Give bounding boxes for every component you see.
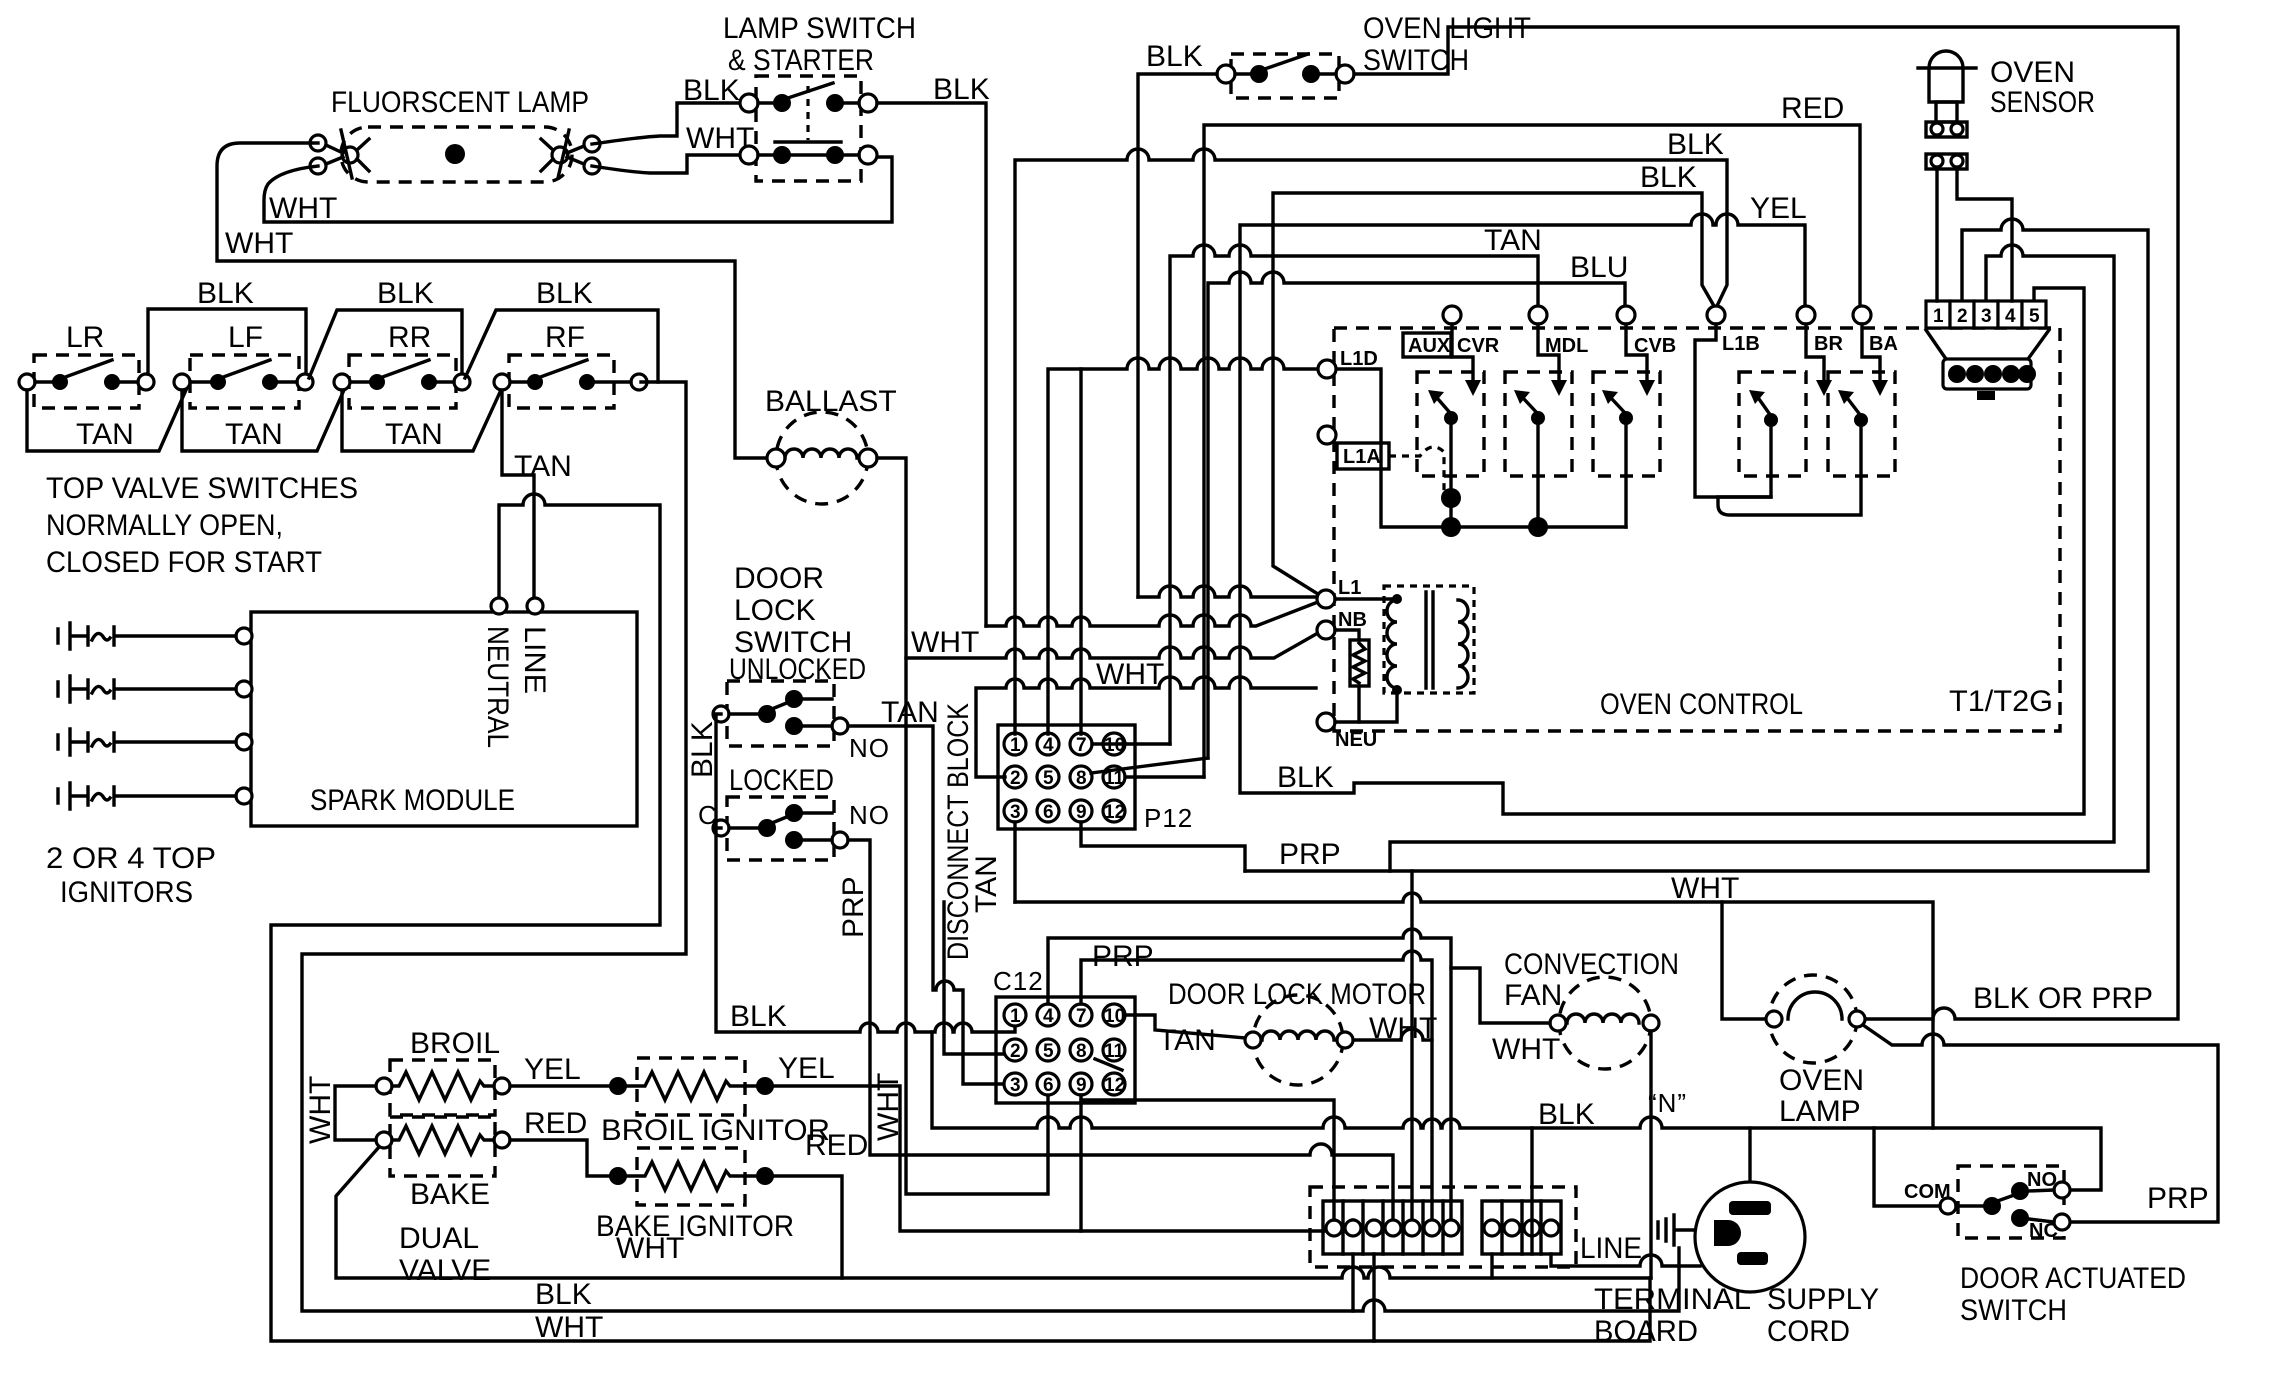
wire RED bake ignitor right down to WHT line [774, 1129, 868, 1278]
oven sensor RT1 [1918, 51, 2095, 169]
wire BLK L1 junction riser to L1B [1273, 161, 1714, 599]
wire P12 pin11 to RED riser [1125, 775, 1204, 778]
svg-text:SENSOR: SENSOR [1990, 86, 2095, 119]
svg-text:2: 2 [1010, 768, 1021, 789]
svg-text:TAN: TAN [1484, 224, 1542, 257]
svg-text:SUPPLY: SUPPLY [1767, 1283, 1879, 1316]
svg-text:5: 5 [1043, 1041, 1054, 1062]
note text top valve switches [46, 472, 358, 579]
svg-text:TOP VALVE SWITCHES: TOP VALVE SWITCHES [46, 472, 358, 505]
wire PRP oven lamp diagonal to door switch NC [1863, 1025, 2218, 1222]
wire P12 pin7 riser to L1D line [1079, 369, 1082, 734]
svg-text:SWITCH: SWITCH [1960, 1294, 2067, 1327]
svg-text:FLUORSCENT LAMP: FLUORSCENT LAMP [331, 86, 589, 119]
wire L1 feed line from oven light riser [1138, 586, 1317, 597]
wire BLK starter line to L1 [986, 602, 1318, 626]
terminal L1 [1317, 577, 1397, 608]
valve switch RF [494, 321, 647, 408]
svg-text:BLK: BLK [683, 74, 740, 107]
svg-text:NO: NO [849, 800, 890, 830]
svg-text:BA: BA [1869, 333, 1898, 355]
svg-text:8: 8 [1076, 768, 1087, 789]
svg-text:YEL: YEL [524, 1053, 581, 1086]
svg-text:L1: L1 [1338, 577, 1361, 599]
terminal L1A [1318, 426, 1451, 498]
svg-text:WHT: WHT [269, 192, 337, 225]
svg-text:1: 1 [1933, 306, 1944, 327]
transformer T1 [1384, 586, 1474, 695]
relay CVB [1593, 324, 1660, 527]
AUX label [1403, 333, 1500, 357]
svg-text:DISCONNECT BLOCK: DISCONNECT BLOCK [942, 703, 975, 960]
wire PRP C12 pin4 riser to terminal board [1048, 929, 1451, 1220]
svg-text:8: 8 [1076, 1041, 1087, 1062]
svg-text:BLK: BLK [1640, 161, 1697, 194]
svg-text:BLK: BLK [536, 277, 593, 310]
door lock switch UNLOCKED contacts [713, 681, 890, 763]
svg-text:7: 7 [1076, 1006, 1087, 1027]
wire BLK branch down to terminal board line [932, 1032, 2101, 1190]
wire WHT ballast right down to C12 pin6 [877, 458, 1048, 1194]
svg-text:LOCKED: LOCKED [729, 764, 834, 797]
svg-text:9: 9 [1076, 802, 1087, 823]
wire WHT dual valve diagonal to bottom line [336, 1147, 1651, 1278]
supply cord P1 [1695, 1182, 1879, 1348]
wire BLK from RF-right down around to BLK bottom line [302, 382, 1679, 1311]
sensor connector 1-5 [1926, 301, 2049, 359]
svg-text:10: 10 [1104, 1006, 1125, 1027]
svg-text:3: 3 [1981, 306, 1992, 327]
svg-text:RED: RED [524, 1107, 587, 1140]
svg-text:P12: P12 [1144, 803, 1193, 833]
svg-text:LINE: LINE [1580, 1232, 1642, 1265]
bake element R2 [376, 1117, 510, 1287]
wire BLK OR PRP oven light switch right via top right to oven lamp [1354, 27, 2178, 1019]
svg-text:BROIL IGNITOR: BROIL IGNITOR [601, 1114, 830, 1147]
valve switch LF [174, 321, 313, 451]
wire PRP locked-NO down [837, 840, 1393, 1220]
svg-text:NO: NO [2027, 1169, 2057, 1191]
wire WHT broil-bake bracket [304, 1076, 376, 1144]
svg-text:LINE: LINE [518, 626, 551, 694]
svg-text:WHT: WHT [1096, 658, 1164, 691]
wire YEL riser to BR [1240, 192, 1807, 793]
wire P12 pin3 to C12 pin2 [944, 822, 1015, 1054]
wire P12 pin8 to BLU riser [1091, 758, 1208, 773]
sensor plug [1943, 359, 2036, 400]
svg-text:2: 2 [1957, 306, 1968, 327]
broil element R1 [376, 1027, 510, 1115]
oven lamp DS1 [1766, 975, 1865, 1128]
svg-text:BLK: BLK [933, 73, 990, 106]
relay labels [1545, 333, 1898, 357]
svg-text:5: 5 [2029, 306, 2040, 327]
door lock switch labels [729, 562, 866, 686]
broil ignitor R3 [601, 1058, 830, 1147]
svg-text:VALVE: VALVE [399, 1254, 491, 1287]
wire N convection fan down [1648, 1031, 1687, 1278]
svg-text:LOCK: LOCK [734, 594, 816, 627]
svg-text:CORD: CORD [1767, 1315, 1850, 1348]
lamp switch and starter S1 [723, 12, 916, 181]
svg-text:WHT: WHT [535, 1311, 603, 1344]
wire P12 pin10 to TAN riser [1092, 742, 1170, 745]
label 2 or 4 top ignitors [46, 842, 216, 909]
svg-text:WHT: WHT [225, 227, 293, 260]
svg-text:OVEN: OVEN [1779, 1064, 1864, 1097]
wire BLU riser to CVB [1208, 251, 1628, 758]
wire C12 pin9 down to terminal board c2 [1081, 1095, 1353, 1231]
svg-text:BLK: BLK [1538, 1098, 1595, 1131]
svg-text:LR: LR [66, 321, 104, 354]
fluorescent lamp FL1 [310, 86, 600, 182]
wire TAN loop LR to LF [27, 390, 186, 451]
terminal board TB1 [1310, 1187, 1751, 1348]
wire TAN loop LF to RR [182, 390, 344, 451]
wire RED bake to bake ignitor [510, 1107, 627, 1185]
door lock motor M2 [1168, 978, 1426, 1085]
svg-text:WHT: WHT [911, 626, 979, 659]
svg-text:BLK: BLK [1667, 128, 1724, 161]
svg-text:WHT: WHT [616, 1232, 684, 1265]
svg-text:TAN: TAN [1158, 1024, 1216, 1057]
wire terminal board c3 down to WHT line [1372, 1254, 1375, 1341]
contact bar and L1D riser [1336, 369, 1626, 527]
svg-text:3: 3 [1010, 1075, 1021, 1096]
svg-text:RR: RR [388, 321, 431, 354]
wire L1D feed from harness [1048, 358, 1318, 734]
svg-text:DUAL: DUAL [399, 1222, 479, 1255]
svg-text:BLK: BLK [730, 1000, 787, 1033]
relay MDL [1505, 324, 1572, 537]
ballast B1 [765, 385, 897, 504]
svg-text:BAKE: BAKE [410, 1178, 490, 1211]
wire terminal board right c1 down to WHT line [1490, 1254, 1493, 1278]
svg-text:OVEN: OVEN [1990, 56, 2075, 89]
relay L1B-BR [1695, 324, 1832, 497]
svg-text:IGNITORS: IGNITORS [60, 876, 193, 909]
terminal NB and W2 resistor [1317, 609, 1369, 722]
svg-text:L1A: L1A [1343, 446, 1381, 468]
svg-text:CLOSED FOR START: CLOSED FOR START [46, 546, 322, 579]
svg-text:NB: NB [1338, 609, 1367, 631]
wire C12 pin8 stub [1095, 1059, 1122, 1070]
spark module M1 [236, 598, 637, 826]
wire YEL broil to broil ignitor [510, 1053, 627, 1095]
wire terminal board c1 riser to C12 pin9 line [1081, 1100, 1334, 1220]
svg-text:9: 9 [1076, 1075, 1087, 1096]
wire WHT convection fan feed [1451, 968, 1560, 1066]
svg-text:BROIL: BROIL [410, 1027, 500, 1060]
wire BLK starter right down to door lock area [877, 73, 990, 626]
oven light switch S2 [1146, 12, 1531, 98]
svg-text:NEU: NEU [1335, 729, 1377, 751]
wire TAN from RF-left down to spark module LINE terminal [502, 390, 572, 598]
svg-text:& STARTER: & STARTER [728, 44, 874, 77]
wire BLK P12 pin1 to L1B [1015, 128, 1727, 734]
wire spark module NEUTRAL terminal loop to WHT bottom line [271, 494, 1650, 1341]
svg-text:PRP: PRP [2147, 1182, 2209, 1215]
wire WHT ballast branch to NB [906, 626, 1318, 659]
svg-text:DOOR: DOOR [734, 562, 824, 595]
svg-text:2 OR 4 TOP: 2 OR 4 TOP [46, 842, 216, 875]
svg-text:BLK: BLK [686, 721, 719, 778]
svg-text:CONVECTION: CONVECTION [1504, 948, 1679, 981]
wire terminal board right c3 riser to BLK line [1532, 1098, 1595, 1254]
valve switch RR [334, 321, 470, 451]
svg-text:BLK: BLK [377, 277, 434, 310]
svg-text:1: 1 [1010, 735, 1021, 756]
wire sensor block to sq4 [1957, 169, 2012, 301]
wire BLK lamp upper-right to starter [592, 74, 740, 144]
svg-text:NORMALLY OPEN,: NORMALLY OPEN, [46, 509, 283, 542]
svg-text:12: 12 [1104, 1075, 1125, 1096]
svg-text:YEL: YEL [1750, 192, 1807, 225]
wire WHT door lock motor to terminal board c6 [1354, 1012, 1437, 1220]
svg-text:12: 12 [1104, 802, 1125, 823]
wire YEL broil ignitor right down to C12 area [774, 1052, 1081, 1231]
svg-text:YEL: YEL [778, 1052, 835, 1085]
svg-text:DOOR ACTUATED: DOOR ACTUATED [1960, 1262, 2186, 1295]
svg-text:1: 1 [1010, 1006, 1021, 1027]
svg-text:NEUTRAL: NEUTRAL [481, 626, 514, 748]
svg-text:TAN: TAN [385, 418, 443, 451]
wire TAN loop RR to RF [342, 390, 501, 451]
connector C12 [993, 966, 1135, 1103]
wire WHT lamp upper-left to ballast [217, 143, 767, 458]
svg-text:BLK: BLK [535, 1278, 592, 1311]
svg-text:BLK OR PRP: BLK OR PRP [1973, 982, 2153, 1015]
svg-text:6: 6 [1043, 802, 1054, 823]
convection fan M3 [1504, 948, 1679, 1069]
svg-text:BR: BR [1814, 333, 1843, 355]
disconnect block P12 [942, 703, 1193, 960]
svg-text:4: 4 [1043, 1006, 1054, 1027]
svg-text:BLK: BLK [197, 277, 254, 310]
svg-text:PRP: PRP [1092, 940, 1154, 973]
svg-text:TAN: TAN [970, 855, 1003, 913]
terminal NEU [1317, 690, 1397, 751]
wire LINE terminal board right c4 to supply cord [1551, 1232, 1700, 1266]
svg-text:6: 6 [1043, 1075, 1054, 1096]
ground symbol [1658, 1128, 1750, 1245]
svg-text:FAN: FAN [1504, 979, 1562, 1012]
svg-text:BLK: BLK [1146, 40, 1203, 73]
wire supply cord L1 riser [1748, 1128, 1751, 1183]
wire BLK loop LF to RR [309, 277, 462, 378]
relay BA [1718, 324, 1895, 515]
svg-text:AUX: AUX [1408, 335, 1451, 357]
svg-text:4: 4 [1043, 735, 1054, 756]
svg-text:RF: RF [545, 321, 585, 354]
svg-text:L1B: L1B [1722, 333, 1760, 355]
wire WHT riser to oven lamp [1671, 872, 1766, 1019]
svg-text:CVR: CVR [1457, 335, 1500, 357]
svg-text:7: 7 [1076, 735, 1087, 756]
wire TAN riser to MDL [1170, 224, 1542, 744]
wire BLK loop LR to LF [148, 277, 306, 374]
wire TAN C12 pin10 to door lock motor [1125, 1015, 1246, 1057]
svg-text:SPARK MODULE: SPARK MODULE [310, 784, 515, 817]
svg-text:BOARD: BOARD [1594, 1315, 1698, 1348]
svg-text:L1D: L1D [1340, 348, 1378, 370]
svg-text:TAN: TAN [225, 418, 283, 451]
svg-text:LAMP SWITCH: LAMP SWITCH [723, 12, 916, 45]
wire RED P12 pin11 to BA [1204, 92, 1860, 777]
svg-text:NO: NO [849, 733, 890, 763]
svg-text:WHT: WHT [1492, 1033, 1560, 1066]
wire BLK P12 riser to sensor sq5 drop [1243, 288, 2084, 814]
wire COM to N line [1874, 1128, 1940, 1206]
svg-text:WHT: WHT [304, 1076, 337, 1144]
wire WHT P12 pin2 to NEU [976, 677, 1316, 777]
wire TAN door lock switch to C12 pin3 [848, 696, 1003, 1084]
svg-text:C12: C12 [993, 966, 1044, 996]
relay CVR [1417, 324, 1484, 537]
svg-text:11: 11 [1104, 1041, 1125, 1062]
svg-text:5: 5 [1043, 768, 1054, 789]
svg-text:OVEN CONTROL: OVEN CONTROL [1600, 688, 1803, 721]
oven control terminals [1443, 306, 1871, 324]
wire sensor sq3 drop line [1390, 245, 2114, 871]
svg-text:“N”: “N” [1648, 1088, 1687, 1118]
svg-text:3: 3 [1010, 802, 1021, 823]
wire PRP long line P12 to sensor sq2 drop [1245, 219, 2148, 1220]
svg-text:LF: LF [228, 321, 263, 354]
wire BLK oven light switch to L1 line [1138, 74, 1217, 597]
svg-text:4: 4 [2005, 306, 2016, 327]
bake ignitor R4 [596, 1148, 794, 1243]
door lock switch LOCKED contacts [698, 764, 890, 860]
svg-text:TAN: TAN [76, 418, 134, 451]
wire C12 pin7 riser to terminal board c5 [1081, 951, 1432, 1040]
terminal L1D [1318, 348, 1378, 378]
svg-text:SWITCH: SWITCH [1363, 44, 1469, 77]
oven control box [1334, 328, 2060, 731]
wire WHT lamp lower-left loop to starter lower-right [264, 157, 892, 225]
svg-text:PRP: PRP [1279, 838, 1341, 871]
wire terminal board c2 down to BLK line [1351, 1254, 1354, 1311]
svg-text:T1/T2G: T1/T2G [1949, 685, 2053, 718]
wire BLK door lock chain down to C12 pin1 [686, 714, 1015, 1033]
wire P12 pin9 to PRP line [1081, 822, 1245, 871]
wire sensor block to sq1 [1935, 169, 1938, 301]
svg-text:RED: RED [805, 1129, 868, 1162]
wire BLK loop RR to RF [465, 277, 658, 382]
wire PRP drop to terminal board c5 [1410, 871, 1413, 1220]
svg-text:BLK: BLK [1277, 761, 1334, 794]
svg-text:BLU: BLU [1570, 251, 1628, 284]
svg-text:RED: RED [1781, 92, 1844, 125]
svg-text:TAN: TAN [514, 450, 572, 483]
wire long line to door switch NO [1015, 893, 1933, 1128]
svg-text:PRP: PRP [837, 876, 870, 938]
wire WHT lamp lower-right to starter [592, 122, 754, 173]
svg-text:TAN: TAN [881, 696, 939, 729]
valve switch LR [19, 321, 154, 451]
svg-text:2: 2 [1010, 1041, 1021, 1062]
door actuated switch S3 [1904, 1166, 2186, 1327]
svg-text:LAMP: LAMP [1779, 1095, 1861, 1128]
svg-text:WHT: WHT [1671, 872, 1739, 905]
